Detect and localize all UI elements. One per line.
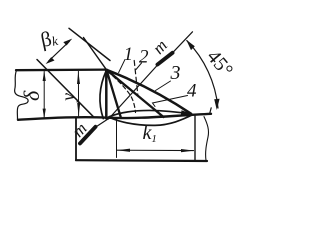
ray d with slight bulge <box>107 70 192 114</box>
envelope curve B (upper of right lens) <box>109 110 192 116</box>
svg-text:δ: δ <box>19 90 44 101</box>
upper plate left wavy break edge <box>15 70 29 119</box>
upper plate top surface <box>16 68 107 71</box>
arc bottom arrowhead <box>214 99 219 110</box>
long line: bottom of upper plate / top of lower plate <box>18 114 211 120</box>
leader 2 <box>136 63 142 70</box>
arc top arrowhead <box>186 40 195 50</box>
delta top arrowhead <box>43 71 46 81</box>
45 degree arc <box>187 41 218 108</box>
envelope curve A (left bulge) <box>100 71 106 119</box>
beam axis line L1 through upper plate <box>37 60 94 118</box>
k1 extension line left (skip point) <box>116 119 118 158</box>
section line m-m thick top end stroke <box>158 53 173 65</box>
section line m-m thick bottom end stroke <box>80 127 96 144</box>
dashed vertical hidden edge <box>134 61 138 97</box>
beta-k double arrow <box>49 41 70 61</box>
dashed curve from corner <box>108 72 136 113</box>
section line m-m thin bottom part <box>95 119 109 128</box>
weld corner vertical edge ray <box>105 70 108 118</box>
k1 right arrowhead <box>181 149 194 152</box>
section line m-m thin top part <box>173 32 193 53</box>
svg-text:3: 3 <box>170 62 181 84</box>
y bottom arrowhead <box>77 103 80 116</box>
y top arrowhead <box>77 71 80 84</box>
lower plate bottom line <box>76 159 207 162</box>
k1 dimension line <box>117 149 193 151</box>
y dimension line <box>77 71 79 116</box>
svg-text:y: y <box>58 93 78 103</box>
ray d arrowhead <box>181 110 194 115</box>
leader 3 <box>156 81 171 91</box>
svg-text:4: 4 <box>187 81 197 102</box>
k1 extension line right <box>194 116 196 160</box>
construction line L2 into weld corner <box>69 28 110 60</box>
leader 1 <box>119 60 125 73</box>
envelope curve C (lower of right lens) <box>110 115 193 126</box>
section line m-m thin middle part through fan <box>109 65 159 120</box>
svg-text:1: 1 <box>124 44 134 65</box>
leader 4 <box>153 96 188 107</box>
ray c <box>107 70 164 117</box>
lower plate right wavy break edge <box>204 117 209 161</box>
delta bottom arrowhead <box>43 109 46 119</box>
delta dimension line <box>43 72 45 119</box>
ray b <box>107 70 122 118</box>
k1 left arrowhead <box>117 149 130 152</box>
lower plate left edge <box>75 118 77 160</box>
small end tick on surface line <box>210 108 212 114</box>
